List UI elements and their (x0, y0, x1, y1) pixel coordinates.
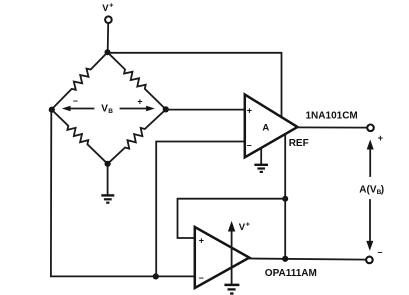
annotation arrow A(VB) output voltage (359, 140, 384, 251)
node bridge top (105, 49, 111, 55)
svg-text:): ) (381, 185, 384, 196)
terminal output - (366, 247, 382, 263)
svg-text:V: V (239, 222, 246, 233)
terminal output + (367, 125, 383, 143)
node bridge left (49, 107, 55, 113)
ground below amp A (254, 165, 268, 172)
resistor bridge top-right (108, 52, 166, 109)
resistor bridge top-left (52, 52, 108, 109)
ground below bridge (101, 195, 114, 202)
svg-text:A(V: A(V (359, 185, 377, 196)
wire bridge top node to V+ rail corner (108, 53, 282, 117)
resistor bridge bottom-left (52, 110, 108, 164)
svg-text:OPA111AM: OPA111AM (265, 268, 317, 279)
op-amp U1 A (instrumentation amplifier) (245, 95, 298, 158)
wire amp A output to + output terminal (298, 126, 368, 128)
svg-text:+: + (199, 235, 204, 245)
wire V+ terminal to bridge top node (107, 23, 110, 51)
terminal V+ (102, 3, 113, 23)
wire bridge bottom node to ground (107, 164, 109, 195)
svg-text:+: + (247, 105, 252, 115)
wire V+ supply arrow of OPA111 and ground stem (231, 228, 233, 283)
svg-text:+: + (378, 133, 383, 143)
node bridge bottom (105, 161, 111, 167)
wire OPA output to - output terminal (249, 259, 366, 260)
svg-text:1NA101CM: 1NA101CM (306, 110, 358, 121)
svg-text:–: – (199, 273, 204, 283)
wire bridge left node down and along bottom to OPA inverting input (51, 110, 195, 277)
svg-text:–: – (247, 140, 252, 150)
svg-text:A: A (262, 123, 269, 134)
node REF / feedback junction (282, 196, 288, 202)
svg-text:+: + (246, 222, 250, 229)
wire amp A ground pin (260, 149, 262, 164)
label VB bridge excitation with arrows (62, 96, 155, 116)
node bottom wire junction (153, 273, 159, 279)
svg-text:+: + (109, 3, 113, 10)
svg-text:+: + (137, 97, 142, 107)
svg-text:V: V (102, 3, 109, 14)
ground below OPA111 (224, 285, 239, 294)
svg-text:REF: REF (289, 138, 309, 149)
svg-text:–: – (378, 247, 383, 257)
svg-text:–: – (73, 96, 78, 106)
wire feedback from junction to OPA non-inverting input (178, 199, 286, 238)
label V+ supply at OPA111 (239, 222, 250, 233)
wire bridge right node to amp A non-inverting input (166, 109, 245, 111)
wire junction up to amp A inverting input (156, 142, 245, 277)
op-amp U2 OPA111AM (195, 227, 250, 288)
node OPA output junction (282, 256, 288, 262)
wire REF pin down to OPA output junction (284, 135, 286, 259)
svg-text:B: B (108, 108, 113, 115)
resistor bridge bottom-right (108, 109, 166, 163)
node bridge right (163, 106, 169, 112)
